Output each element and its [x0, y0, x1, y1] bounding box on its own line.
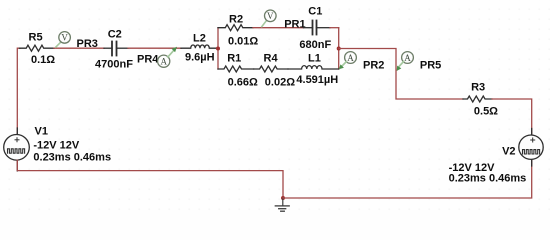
svg-text:R4: R4 — [264, 53, 279, 65]
wire C1 to box right edge — [330, 27, 339, 29]
svg-text:V2: V2 — [502, 145, 515, 157]
probe PR3 — [56, 32, 71, 47]
wire R3 to V2 — [492, 99, 532, 135]
svg-text:A: A — [404, 53, 411, 63]
node dot ground — [281, 196, 285, 200]
svg-text:-12V 12V: -12V 12V — [33, 139, 80, 151]
node: box right edge — [338, 28, 340, 69]
wire R5 to C2 — [54, 47, 104, 49]
wire V1 bottom to ground node — [17, 160, 283, 198]
node: box left edge — [217, 28, 219, 69]
svg-text:0.23ms 0.46ms: 0.23ms 0.46ms — [449, 173, 527, 185]
svg-text:0.5Ω: 0.5Ω — [474, 105, 498, 117]
svg-text:A: A — [347, 53, 354, 63]
source V2 — [519, 135, 543, 159]
source V2 pin stubs — [531, 129, 533, 136]
svg-text:PR5: PR5 — [420, 60, 441, 72]
svg-text:0.1Ω: 0.1Ω — [31, 54, 55, 66]
svg-text:680nF: 680nF — [299, 39, 331, 51]
svg-text:PR3: PR3 — [77, 38, 98, 50]
probe PR2 — [339, 52, 357, 70]
wire C2 to L2 — [128, 47, 181, 49]
svg-text:PR4: PR4 — [137, 54, 159, 66]
resistor R5 — [20, 45, 55, 51]
wire ground node to V2 bottom — [283, 160, 532, 199]
capacitor C2 — [104, 42, 128, 56]
probe PR1 — [262, 10, 276, 27]
svg-text:4.591µH: 4.591µH — [296, 74, 338, 86]
svg-text:R5: R5 — [29, 32, 43, 44]
resistor R1 — [218, 66, 254, 72]
source V1 — [4, 135, 30, 161]
svg-text:R1: R1 — [227, 53, 241, 65]
inductor L2 — [181, 45, 217, 48]
resistor R2 — [218, 25, 253, 31]
svg-text:9.6µH: 9.6µH — [185, 52, 215, 64]
svg-text:0.23ms 0.46ms: 0.23ms 0.46ms — [33, 151, 111, 163]
node dot right — [337, 47, 341, 51]
svg-text:0.01Ω: 0.01Ω — [228, 36, 258, 48]
resistor R4 — [254, 66, 288, 72]
wire box right to R3 — [339, 49, 463, 100]
capacitor C1 — [304, 21, 331, 35]
svg-text:R3: R3 — [471, 81, 485, 93]
svg-text:4700nF: 4700nF — [95, 58, 133, 70]
node dot left — [216, 47, 220, 51]
svg-text:PR2: PR2 — [363, 60, 384, 72]
svg-text:C1: C1 — [308, 5, 322, 17]
svg-text:A: A — [160, 56, 167, 66]
svg-text:V: V — [267, 11, 274, 21]
wire R2 to C1 — [253, 27, 304, 29]
svg-text:L2: L2 — [193, 32, 206, 44]
probe PR5 — [397, 52, 414, 71]
svg-text:V: V — [61, 32, 68, 42]
svg-text:C2: C2 — [108, 29, 122, 41]
svg-text:R2: R2 — [229, 14, 243, 26]
source V1 pin stubs — [16, 128, 18, 135]
svg-text:0.02Ω: 0.02Ω — [265, 77, 295, 89]
wire V1 top vertical to R5 — [17, 48, 20, 135]
svg-text:L1: L1 — [308, 53, 321, 65]
inductor L1 — [288, 66, 339, 69]
ground — [275, 198, 289, 211]
svg-text:PR1: PR1 — [284, 19, 305, 31]
resistor R3 — [463, 96, 492, 102]
svg-text:0.66Ω: 0.66Ω — [228, 77, 258, 89]
svg-text:V1: V1 — [35, 125, 48, 137]
